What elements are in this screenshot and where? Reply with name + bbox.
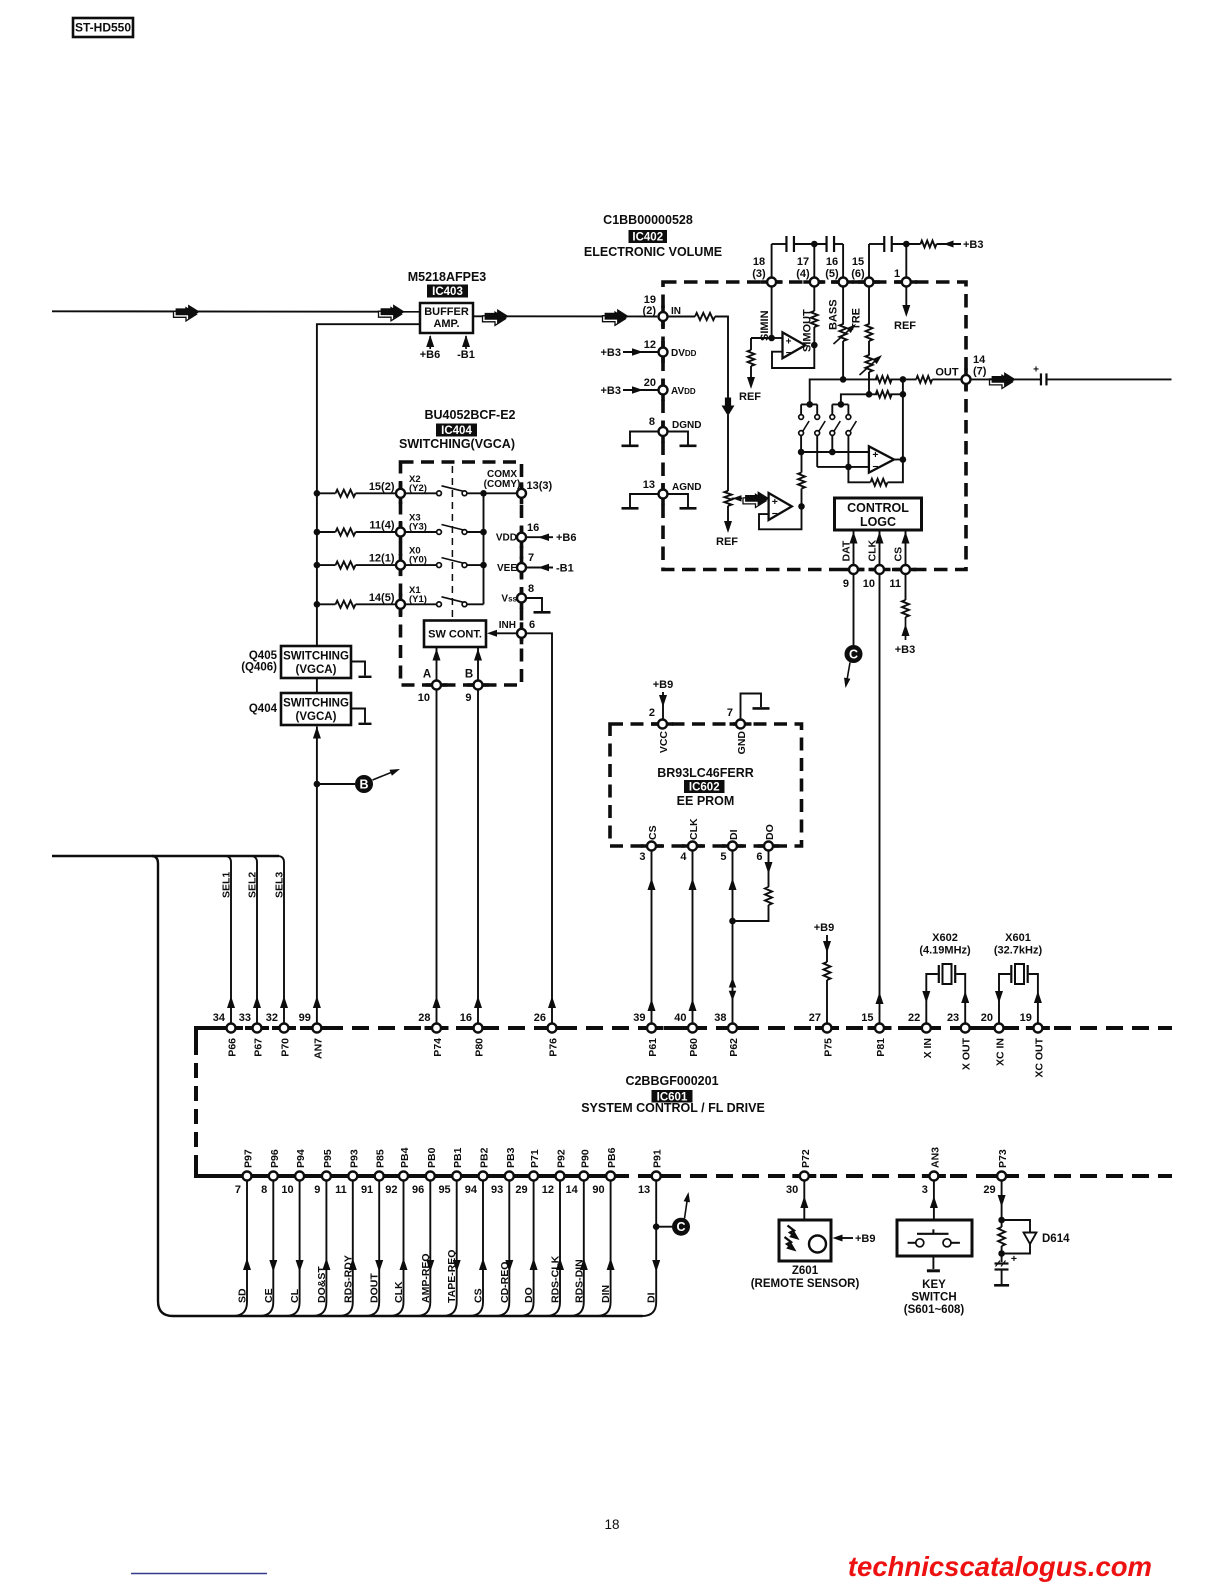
junction sw1-line3 — [798, 449, 805, 456]
wire: row 4 to resistor — [317, 603, 336, 605]
wire: TAPE-REQ drop to trunk — [443, 1180, 461, 1316]
pin label X1(Y1) — [409, 585, 427, 605]
pin label PB0 — [426, 1147, 438, 1168]
wire: TRE vertical upper — [868, 286, 870, 324]
wire: pin to switch row 3 — [405, 564, 437, 566]
wire: summing line 1 — [810, 379, 878, 404]
capacitor C (TRE line) — [884, 236, 892, 252]
wire: row 2 to resistor — [317, 531, 336, 533]
svg-text:12: 12 — [542, 1184, 554, 1196]
pin label P95 — [322, 1149, 334, 1168]
pin number 27 — [809, 1012, 821, 1024]
Q405 output stub — [351, 662, 372, 677]
pin INH circle — [517, 622, 526, 644]
wire: A into SW CONT — [433, 648, 441, 681]
CONTROL LOGC box — [835, 498, 922, 530]
wire: SEL1 line — [226, 856, 235, 1024]
pin label P70 — [280, 1038, 292, 1057]
pin 34 circle (P66) — [227, 1024, 236, 1033]
footer underline — [131, 1573, 267, 1575]
power +B3 to DVDD — [601, 347, 659, 359]
resistor R (TRE) — [866, 324, 873, 341]
svg-text:16: 16 — [460, 1012, 472, 1024]
pin 16 circle — [839, 278, 848, 287]
svg-text:P91: P91 — [652, 1149, 664, 1168]
svg-text:SW CONT.: SW CONT. — [428, 629, 482, 641]
crystal X601 — [995, 964, 1042, 1024]
resistor R (P73) — [998, 1220, 1005, 1254]
resistor R (op3 out) — [798, 473, 805, 489]
pin 11 circle (P93) — [348, 1172, 357, 1181]
pin label DVDD — [671, 348, 697, 359]
svg-text:99: 99 — [299, 1012, 311, 1024]
wire: CLK to bus P60 — [689, 850, 697, 1023]
watermark technicscatalogus.com — [848, 1551, 1152, 1582]
pin 12 circle (P92) — [556, 1172, 565, 1181]
svg-text:6: 6 — [529, 619, 535, 631]
svg-text:IC402: IC402 — [632, 232, 663, 244]
svg-text:PB6: PB6 — [606, 1147, 618, 1168]
switch S601-608 box — [897, 1220, 972, 1256]
wire: SEL3 line — [279, 856, 288, 1024]
wire: row 4 resistor to pin — [356, 603, 397, 605]
power +B3 to AVDD — [601, 385, 659, 397]
wire: switch to collector row 2 — [467, 531, 484, 533]
switch contacts row 4 — [437, 597, 467, 607]
svg-text:B: B — [465, 669, 473, 681]
svg-text:+B9: +B9 — [855, 1233, 876, 1245]
net label SIMIN — [759, 310, 771, 341]
resistor R (SIMIN-REF) — [748, 350, 755, 366]
resistor R (line1 out) — [916, 376, 932, 383]
wire: B to bus P80 — [474, 689, 482, 1023]
pin 26 circle (P76) — [548, 1024, 557, 1033]
photocoupler Z601 box — [779, 1220, 831, 1261]
wire: sw1 left down — [800, 435, 802, 452]
net label SIMOUT — [802, 309, 814, 352]
svg-text:−: − — [872, 461, 878, 473]
pin 96 circle (PB0) — [426, 1172, 435, 1181]
junction collector row3 — [480, 562, 487, 569]
pin 9 circle — [849, 565, 858, 574]
label SWITCH — [911, 1292, 956, 1304]
svg-text:AGND: AGND — [672, 482, 701, 493]
pin number 5 eeprom — [720, 851, 726, 863]
label IC402 — [629, 230, 668, 244]
resistor R (row 4) — [336, 601, 356, 608]
net label CE — [263, 1288, 275, 1303]
wire: P73 down — [998, 1180, 1006, 1220]
pin label IN — [671, 306, 681, 317]
label BU4052BCF-E2 — [424, 408, 515, 422]
net label DI — [728, 829, 740, 840]
pin number 90 b2 — [592, 1184, 604, 1196]
svg-text:-B1: -B1 — [556, 563, 574, 575]
wire: switch to collector row 4 — [467, 603, 484, 605]
pin DVDD circle — [659, 348, 668, 357]
pin 15 circle (P81) — [875, 1024, 884, 1033]
junction P73 top — [998, 1217, 1005, 1224]
pin number 20 — [644, 377, 656, 389]
IC601 bottom bus solid segments — [235, 1174, 1014, 1178]
Z601 detector circle — [809, 1236, 826, 1253]
svg-text:18: 18 — [604, 1517, 619, 1532]
svg-text:DGND: DGND — [672, 420, 701, 431]
wire: A to bus P74 — [433, 689, 441, 1023]
wire: main audio input line — [52, 311, 657, 316]
wire: DIN drop to trunk — [597, 1180, 615, 1316]
pin IN circle — [659, 312, 668, 321]
pin AVDD circle — [659, 386, 668, 395]
svg-text:B: B — [359, 778, 368, 792]
wire: collector to COMX — [484, 492, 518, 494]
svg-text:C1BB00000528: C1BB00000528 — [603, 213, 693, 227]
svg-text:15: 15 — [852, 256, 864, 268]
svg-text:SWITCHING(VGCA): SWITCHING(VGCA) — [399, 437, 515, 451]
svg-text:10: 10 — [281, 1184, 293, 1196]
junction op-amp1 output — [811, 342, 818, 349]
pin 15 circle — [865, 278, 874, 287]
label REF simin — [739, 391, 761, 403]
pin number 13 b2 — [638, 1184, 650, 1196]
pin number 30 b2 — [786, 1184, 798, 1196]
svg-text:DI: DI — [728, 829, 740, 840]
pin number 92 b2 — [385, 1184, 397, 1196]
net label VCC — [658, 731, 670, 754]
wire: CLK into control — [876, 531, 884, 565]
pin DGND circle — [659, 427, 668, 436]
junction line2-fb — [900, 391, 907, 398]
wire: pin18 to cap C1 — [772, 244, 787, 278]
wire: AN7 line to bus — [313, 784, 321, 1024]
node B circle — [355, 769, 400, 793]
label S601~608 — [904, 1304, 965, 1316]
pin label P94 — [295, 1149, 307, 1168]
resistor R (row 3) — [336, 562, 356, 569]
wire: op-amp3 feedback — [759, 506, 802, 529]
svg-text:20: 20 — [644, 377, 656, 389]
svg-text:40: 40 — [674, 1012, 686, 1024]
wire: line1 mid — [890, 378, 916, 380]
wire: top-left horizontal line — [52, 855, 279, 857]
junction sw2-line4 — [845, 464, 852, 471]
pin number 8 — [649, 416, 655, 428]
IC402 left border solid segments — [661, 306, 665, 506]
svg-text:9: 9 — [465, 692, 471, 704]
net label RDS-DIN — [573, 1259, 585, 1303]
svg-text:13: 13 — [643, 479, 655, 491]
pin number 14 b2 — [566, 1184, 579, 1196]
wire: DO drop to trunk — [520, 1180, 538, 1316]
potentiometer VR (volume) — [724, 491, 731, 506]
signal arrow on input line 4 — [603, 310, 629, 326]
pin 11(4) circle — [396, 528, 405, 537]
power +B3 to CS — [895, 617, 916, 656]
svg-text:(4): (4) — [796, 268, 810, 280]
svg-text:28: 28 — [418, 1012, 430, 1024]
label X601 — [994, 932, 1043, 957]
svg-text:X IN: X IN — [922, 1038, 934, 1058]
svg-text:P61: P61 — [647, 1038, 659, 1057]
svg-text:AMP-REQ: AMP-REQ — [420, 1253, 432, 1303]
svg-text:(COMY): (COMY) — [484, 479, 521, 490]
net label CLK ctl — [867, 540, 879, 562]
svg-text:+B3: +B3 — [601, 385, 622, 397]
wire: CE drop to trunk — [259, 1180, 277, 1316]
junction op-amp3 out — [798, 503, 805, 510]
pin B circle (9) — [474, 681, 483, 690]
wire: op-amp1 feedback loop — [772, 346, 814, 368]
power +B9 to VCC — [653, 679, 674, 720]
pin label P90 — [579, 1149, 591, 1168]
signal arrow right (to op3) — [743, 492, 769, 508]
pin 12(1) circle — [396, 561, 405, 570]
svg-text:7: 7 — [235, 1184, 241, 1196]
svg-text:94: 94 — [465, 1184, 478, 1196]
capacitor C (SIMOUT-BASS) — [827, 236, 835, 252]
pin 7 circle (P97) — [243, 1172, 252, 1181]
pin 29 circle (P73) — [997, 1172, 1006, 1181]
net label SD — [237, 1288, 249, 1303]
svg-text:12(1): 12(1) — [369, 553, 395, 565]
junction collector row2 — [480, 529, 487, 536]
IC404 bottom solid segments — [426, 683, 490, 687]
pin 92 circle (PB4) — [399, 1172, 408, 1181]
svg-text:14(5): 14(5) — [369, 592, 395, 604]
svg-text:+B9: +B9 — [653, 679, 674, 691]
svg-text:C: C — [849, 648, 858, 662]
op-amp U IC403 buffer amp box — [420, 303, 473, 333]
net label SEL1 — [221, 872, 233, 898]
label Z601 — [792, 1265, 819, 1277]
svg-text:(7): (7) — [973, 366, 987, 378]
pin number 29 b2 — [515, 1184, 527, 1196]
wire: Q405 to Q404 — [316, 678, 318, 693]
svg-text:+B9: +B9 — [814, 922, 835, 934]
svg-text:AVDD: AVDD — [671, 386, 696, 397]
pin number 7 — [528, 552, 534, 564]
power +B9 to P75 — [814, 922, 835, 962]
pin 4 CLK circle — [688, 842, 697, 851]
svg-text:13(3): 13(3) — [527, 480, 553, 492]
label KEY — [922, 1279, 946, 1291]
svg-text:X OUT: X OUT — [961, 1037, 973, 1070]
svg-text:C: C — [676, 1220, 685, 1234]
IC402 bottom border solid segments — [843, 568, 917, 572]
net label DOUT — [369, 1273, 381, 1303]
pin 11 circle — [901, 565, 910, 574]
svg-text:95: 95 — [438, 1184, 450, 1196]
svg-text:P71: P71 — [529, 1149, 541, 1168]
pin VEE circle — [517, 557, 526, 579]
svg-text:P60: P60 — [688, 1038, 700, 1057]
IC602 bottom solid segments — [641, 844, 780, 848]
pin number 32 — [266, 1012, 278, 1024]
pin number 38 — [714, 1012, 726, 1024]
svg-text:P94: P94 — [295, 1149, 307, 1168]
power +B9 to Z601 — [833, 1233, 876, 1245]
svg-text:SWITCH: SWITCH — [911, 1292, 956, 1304]
pin number 17(4) — [796, 256, 810, 280]
pin label PB4 — [399, 1147, 411, 1168]
svg-text:29: 29 — [983, 1184, 995, 1196]
net label DO&amp;ST — [316, 1266, 328, 1303]
svg-text:PB4: PB4 — [399, 1147, 411, 1168]
svg-text:technicscatalogus.com: technicscatalogus.com — [848, 1551, 1152, 1582]
label BR93LC46FERR — [657, 766, 754, 780]
resistor R (op2 feedback) — [871, 479, 888, 486]
svg-text:34: 34 — [213, 1012, 226, 1024]
ground GND pin7 — [741, 694, 770, 720]
op-amp U1 (SIM) — [783, 332, 806, 359]
wire: to node C lower — [656, 1226, 672, 1228]
pin number 15(2) — [369, 481, 395, 493]
svg-text:D614: D614 — [1042, 1233, 1070, 1245]
label REF pin1 — [894, 320, 916, 332]
svg-text:+B6: +B6 — [556, 532, 577, 544]
svg-text:+: + — [872, 449, 878, 461]
transistor block Q405/Q406 switching — [281, 646, 351, 678]
svg-text:VCC: VCC — [658, 731, 670, 754]
pin label P85 — [375, 1149, 387, 1168]
pin label P91 — [652, 1149, 664, 1168]
label IC403 — [427, 285, 468, 299]
svg-text:P92: P92 — [556, 1149, 568, 1168]
pin number 9 b2 — [314, 1184, 320, 1196]
wire: fb vertical — [902, 379, 904, 459]
wire: pot to REF — [724, 506, 732, 533]
resistor R (row 1) — [336, 490, 356, 497]
label SYSTEM CONTROL / FL DRIVE — [581, 1101, 765, 1115]
wire: DO to DI node — [733, 905, 769, 921]
wire: resistor to REF arrow — [747, 366, 755, 389]
wire: SIMOUT vertical — [813, 286, 815, 345]
wire: SIMIN vertical — [771, 286, 773, 338]
IC601 top bus (dashed) — [196, 1026, 1172, 1030]
svg-text:VDD: VDD — [496, 533, 517, 544]
wire: RDS-CLK drop to trunk — [546, 1180, 564, 1316]
svg-text:P67: P67 — [253, 1038, 265, 1057]
svg-text:(Y2): (Y2) — [409, 483, 427, 494]
pin number 93 b2 — [491, 1184, 503, 1196]
wire: summing line 2 — [841, 394, 877, 404]
junction DI-DO node — [729, 918, 736, 925]
pin number 10 b2 — [281, 1184, 293, 1196]
svg-text:11: 11 — [335, 1184, 347, 1196]
label REF pot — [716, 536, 738, 548]
junction node B — [314, 781, 321, 788]
svg-text:-B1: -B1 — [457, 349, 475, 361]
svg-text:8: 8 — [261, 1184, 267, 1196]
pin 2 VCC circle — [652, 720, 674, 729]
svg-text:(Y3): (Y3) — [409, 522, 427, 533]
IC404 dashed boundary — [401, 462, 522, 685]
svg-text:2: 2 — [649, 707, 655, 719]
junction TRE-line2 — [866, 391, 873, 398]
svg-text:IC602: IC602 — [689, 782, 720, 794]
resistor R (CS pullup) — [902, 600, 909, 617]
pin number 18(3) — [752, 256, 766, 280]
svg-text:CS: CS — [473, 1288, 485, 1303]
svg-text:9: 9 — [843, 578, 849, 590]
svg-text:P62: P62 — [728, 1038, 740, 1057]
pin label P60 — [688, 1038, 700, 1057]
svg-text:P95: P95 — [322, 1149, 334, 1168]
pin 6 DO circle — [764, 842, 773, 851]
pin number 11(4) — [369, 520, 394, 532]
svg-text:SWITCHING: SWITCHING — [283, 651, 349, 663]
wire: AMP-REQ drop to trunk — [416, 1180, 434, 1316]
wire: collector vertical — [483, 493, 485, 604]
svg-text:(VGCA): (VGCA) — [296, 711, 337, 723]
wire: CS to bus P61 — [648, 850, 656, 1023]
svg-text:AN7: AN7 — [312, 1038, 324, 1059]
svg-text:33: 33 — [239, 1012, 251, 1024]
svg-text:4: 4 — [680, 851, 687, 863]
junction C lower — [653, 1223, 660, 1230]
svg-text:P75: P75 — [823, 1038, 835, 1057]
wire: CLK line pin10 to P81 — [876, 574, 884, 1024]
svg-text:12: 12 — [644, 339, 656, 351]
wire: P72 to Z601 — [800, 1180, 808, 1220]
pin 28 circle (P74) — [432, 1024, 441, 1033]
diode D614 — [1002, 1220, 1037, 1254]
wire: CD-REQ drop to trunk — [495, 1180, 513, 1316]
svg-text:DO: DO — [523, 1287, 535, 1303]
svg-text:22: 22 — [908, 1012, 920, 1024]
svg-text:+B3: +B3 — [601, 347, 622, 359]
label +B3 top — [963, 239, 984, 251]
wire: pin17 stub — [813, 244, 815, 278]
svg-text:6: 6 — [756, 851, 762, 863]
wire: resistor to +B3 — [937, 241, 962, 248]
junction input row 1 — [314, 490, 321, 497]
net label RDS-CLK — [550, 1255, 562, 1303]
switch contacts — [908, 1229, 960, 1247]
svg-text:18: 18 — [753, 256, 765, 268]
svg-text:23: 23 — [947, 1012, 959, 1024]
pin 95 circle (PB1) — [452, 1172, 461, 1181]
svg-text:CLK: CLK — [393, 1281, 405, 1303]
pin 27 circle (P75) — [823, 1024, 832, 1033]
wire: switch to collector row 3 — [467, 564, 484, 566]
pin 40 circle (P60) — [688, 1024, 697, 1033]
wire: CS drop to trunk — [469, 1180, 487, 1316]
svg-text:VEE: VEE — [497, 563, 517, 574]
pin label AGND — [672, 482, 701, 493]
svg-text:DO: DO — [764, 824, 776, 840]
pin 17 circle — [810, 278, 819, 287]
signal arrow on input line 2 — [379, 305, 405, 321]
pin number 16 — [460, 1012, 472, 1024]
label C1BB00000528 — [603, 213, 693, 227]
pin number 10 — [863, 578, 875, 590]
pin number 19 — [1020, 1012, 1032, 1024]
net label SEL3 — [274, 872, 286, 898]
svg-text:(6): (6) — [851, 268, 865, 280]
pin 10 circle — [875, 565, 884, 574]
wire: to node B — [317, 783, 355, 785]
wire: OUT to capacitor — [970, 378, 1041, 380]
pin 93 circle (PB3) — [505, 1172, 514, 1181]
wire: SD drop to trunk — [233, 1180, 251, 1316]
pin label P96 — [269, 1149, 281, 1168]
pin number 12 b2 — [542, 1184, 554, 1196]
pin 9 circle (P95) — [322, 1172, 331, 1181]
wire: RDS-DIN drop to trunk — [570, 1180, 588, 1316]
pin 19 circle (XC OUT) — [1033, 1024, 1042, 1033]
svg-text:96: 96 — [412, 1184, 424, 1196]
